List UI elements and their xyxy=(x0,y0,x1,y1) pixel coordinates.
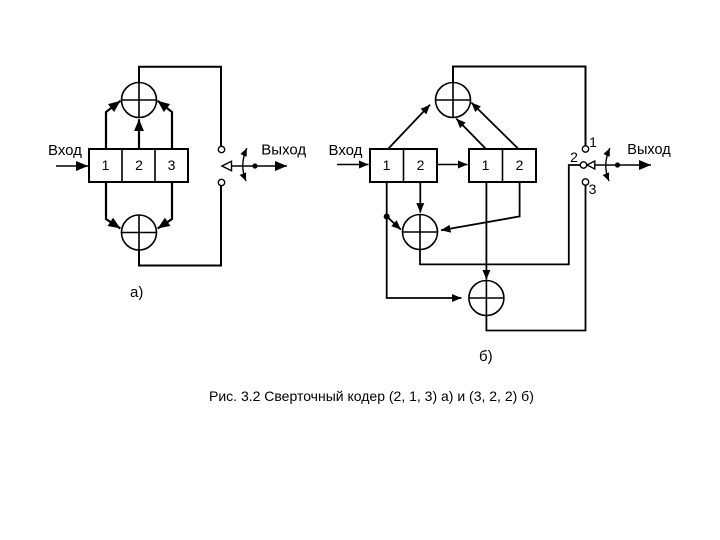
svg-text:Вход: Вход xyxy=(329,142,363,159)
svg-text:2: 2 xyxy=(417,157,425,173)
svg-text:б): б) xyxy=(479,348,493,365)
svg-text:3: 3 xyxy=(589,181,597,197)
svg-text:2: 2 xyxy=(516,157,524,173)
svg-text:2: 2 xyxy=(570,149,578,165)
svg-text:Вход: Вход xyxy=(48,142,82,159)
svg-text:а): а) xyxy=(130,284,143,301)
svg-text:Рис. 3.2 Сверточный кодер (2,: Рис. 3.2 Сверточный кодер (2, 1, 3) а) и… xyxy=(209,388,534,404)
svg-text:3: 3 xyxy=(168,157,176,173)
svg-text:1: 1 xyxy=(102,157,110,173)
svg-text:2: 2 xyxy=(135,157,143,173)
svg-text:Выход: Выход xyxy=(627,142,671,158)
svg-text:Выход: Выход xyxy=(261,142,306,159)
svg-text:1: 1 xyxy=(482,157,490,173)
svg-text:1: 1 xyxy=(589,134,597,150)
svg-text:1: 1 xyxy=(383,157,391,173)
